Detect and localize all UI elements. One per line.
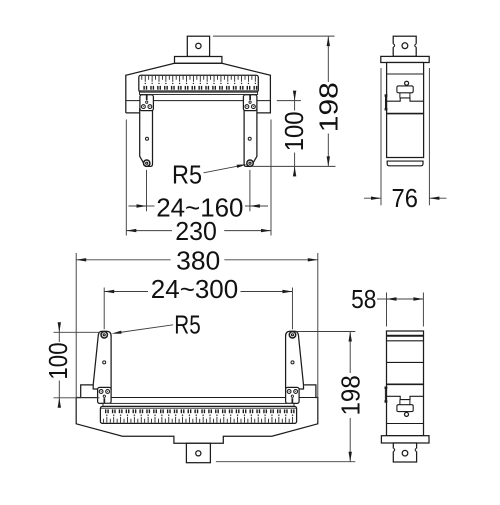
top side tab hole [402, 43, 408, 49]
bottom view left arm bar [93, 331, 111, 389]
bottom left arm mid hole [103, 361, 106, 364]
top front view: mounting tab [187, 36, 209, 56]
T-nut neck mirrored [399, 400, 401, 405]
top body back-bar line [126, 100, 271, 102]
left plate slot hole [146, 101, 148, 103]
ext line bottom tab bottom [216, 461, 355, 463]
T-nut block [397, 86, 413, 93]
bottom left clamp plate [98, 387, 112, 403]
side clamp lever mirrored [384, 387, 386, 403]
ext line bottom body left [75, 253, 77, 421]
bottom tab hole [196, 451, 201, 456]
T-nut block mirrored [397, 405, 413, 412]
ext line body left [125, 120, 127, 236]
bottom view right arm bar [286, 331, 304, 389]
bottom side view: column [387, 331, 424, 436]
ext line left jaw [146, 170, 148, 211]
ext line body line [54, 397, 100, 399]
right arm mid hole [248, 137, 251, 140]
ext line flange right [428, 68, 430, 205]
bottom left jaw pin R5 [101, 332, 107, 338]
T-nut neck [399, 93, 401, 98]
top front view: body outline [126, 63, 271, 113]
svg-text:100: 100 [43, 342, 73, 379]
top ruler number blobs [143, 86, 144, 90]
svg-text:230: 230 [175, 216, 217, 246]
dimension 100 (top view) [294, 101, 296, 111]
ext line bottom body right [317, 253, 319, 421]
T-nut hole [405, 81, 409, 85]
top cap line [387, 340, 424, 342]
ext line col right [422, 293, 424, 327]
left jaw pin R5 [144, 160, 150, 166]
left plate slot [146, 95, 148, 100]
svg-text:380: 380 [176, 246, 220, 276]
R5 leader (top view) [204, 165, 243, 173]
top side view: column [387, 63, 424, 158]
svg-text:24~300: 24~300 [151, 274, 238, 304]
ext line right jaw [249, 170, 251, 211]
top side view: tab [393, 36, 416, 56]
column heavy line [387, 113, 424, 115]
left arm mid hole [146, 137, 149, 140]
column line low [387, 423, 424, 425]
left plate screws [142, 105, 146, 109]
svg-text:58: 58 [351, 284, 376, 314]
right plate slot [249, 95, 251, 100]
top view left arm bar [140, 109, 153, 166]
svg-text:198: 198 [313, 82, 343, 132]
bottom ruler tick marks [103, 417, 292, 423]
bottom right plate screws [287, 390, 291, 394]
top view left arm clamp plate [140, 95, 154, 111]
bottom side tab [393, 443, 416, 462]
side clamp lever [385, 95, 387, 111]
top view right arm clamp plate [243, 95, 257, 111]
ext line flange left [380, 68, 382, 205]
top tab hole [196, 43, 201, 48]
ext line jaw bottom [252, 165, 335, 167]
dimension 198 (top view) [327, 36, 329, 82]
bottom right jaw pin R5 [289, 332, 295, 338]
column line [387, 361, 424, 363]
bottom view ruler scale [103, 403, 294, 406]
top view right arm bar [244, 109, 257, 166]
column heavy line [387, 383, 424, 385]
bottom side flange [381, 436, 429, 443]
svg-text:R5: R5 [172, 160, 202, 190]
right plate screws [245, 105, 249, 109]
top ruler tick marks [142, 76, 256, 82]
column bottom cap [387, 157, 424, 159]
right plate slot hole [249, 101, 251, 103]
top cap heavy line [387, 335, 424, 337]
bottom body back-bar line [81, 397, 316, 399]
svg-text:76: 76 [392, 183, 418, 213]
ext line jaw top [54, 331, 100, 333]
top front view: step block [175, 57, 222, 64]
ext line bottom right jaw [291, 288, 293, 330]
svg-text:198: 198 [336, 375, 366, 415]
T-nut hole mirrored [405, 412, 409, 416]
column slot line [387, 98, 424, 101]
top view ruler scale [140, 92, 258, 95]
column slot line (mirrored) [387, 396, 424, 399]
svg-text:100: 100 [279, 112, 309, 152]
tab edge notches [392, 44, 394, 47]
bottom side tab hole [402, 450, 408, 456]
ext line bottom left jaw [103, 288, 105, 330]
ext line body right [270, 120, 272, 236]
tab edge notches [393, 448, 395, 451]
bottom left plate screws [99, 390, 103, 394]
bottom ruler number blobs [105, 409, 106, 413]
column line [387, 73, 424, 75]
ext line tab top [213, 35, 335, 37]
ext line bottom jaw top [297, 331, 356, 333]
ext line col left [386, 293, 388, 327]
bottom front view: tab [186, 443, 210, 462]
bottom right clamp plate [286, 387, 300, 403]
right jaw pin R5 [247, 160, 253, 166]
top side view: flange [381, 56, 429, 62]
R5 leader (bottom view) [121, 325, 173, 332]
bottom right arm mid hole [291, 361, 294, 364]
bottom front view: body outline [76, 385, 318, 443]
svg-text:R5: R5 [174, 309, 200, 339]
ext line 100-top [277, 100, 301, 102]
